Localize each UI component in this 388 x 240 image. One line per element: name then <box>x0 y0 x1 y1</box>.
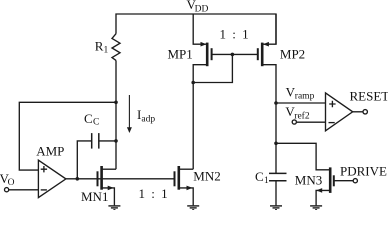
svg-text:MN2: MN2 <box>193 168 220 183</box>
svg-text:MP1: MP1 <box>168 46 193 61</box>
svg-text:AMP: AMP <box>36 144 64 159</box>
node Vramp junction <box>274 101 278 105</box>
label Vramp <box>286 84 315 101</box>
transistor MN2 <box>175 166 194 205</box>
svg-text:ref2: ref2 <box>294 110 310 121</box>
ground MN3 <box>310 206 322 210</box>
svg-text:ramp: ramp <box>295 91 315 101</box>
svg-text:R: R <box>95 38 104 53</box>
terminal VO <box>5 188 39 192</box>
ground MN2 <box>187 206 199 210</box>
junction CC node <box>114 139 118 143</box>
wire C1 to ground <box>275 181 277 206</box>
label R1 <box>95 38 109 55</box>
wire MP2 drain down segment <box>275 103 277 143</box>
op-amp U1 AMP <box>38 160 66 197</box>
transistor MN3 <box>316 167 334 205</box>
label C1 <box>255 169 269 186</box>
svg-text:MN3: MN3 <box>295 172 322 187</box>
terminal Vref2 <box>292 120 325 124</box>
wire node to MN3 drain <box>276 143 330 170</box>
capacitor C1 <box>269 173 287 180</box>
svg-text:RESET: RESET <box>350 88 388 103</box>
svg-text:C: C <box>93 117 99 127</box>
svg-text:1: 1 <box>264 176 269 186</box>
wire feedback to AMP + input <box>19 102 116 170</box>
svg-text:MP2: MP2 <box>280 46 305 61</box>
wire R1 bottom lead <box>115 60 117 103</box>
wire VDD rail <box>116 14 276 44</box>
junction MP1 drain node <box>191 81 195 85</box>
svg-text:PDRIVE: PDRIVE <box>340 163 387 178</box>
svg-text:C: C <box>84 111 93 126</box>
wire AMP output to MN1/MN2 gates <box>66 178 175 180</box>
label CC <box>84 111 99 128</box>
current arrow Iadp <box>127 95 132 133</box>
terminal PDRIVE <box>334 179 358 183</box>
svg-text:C: C <box>255 169 264 184</box>
svg-text:adp: adp <box>141 115 155 125</box>
wire CC left branch <box>77 141 91 179</box>
label Iadp <box>137 107 155 124</box>
svg-text:1 : 1: 1 : 1 <box>139 186 170 201</box>
junction AMP output node <box>76 177 80 181</box>
ground MN1 <box>108 206 120 210</box>
wire down to C1 <box>275 143 277 173</box>
label VO <box>0 171 15 188</box>
wire MN2 drain to MP1 drain <box>192 83 194 170</box>
wire CC right branch <box>100 140 117 142</box>
net VDD label <box>187 0 209 14</box>
svg-text:1: 1 <box>104 46 109 56</box>
wire Vramp to comparator <box>276 102 326 104</box>
label Vref2 <box>285 104 309 121</box>
wire mirror gate line <box>212 53 258 55</box>
transistor MP1 <box>193 14 211 83</box>
svg-text:DD: DD <box>195 4 209 14</box>
ground C1 <box>270 206 282 210</box>
junction C1/MN3 node <box>274 142 278 146</box>
node R1 bottom junction <box>114 101 118 105</box>
comparator U2 <box>326 93 368 131</box>
transistor MP2 <box>258 14 276 103</box>
svg-text:O: O <box>8 178 15 188</box>
resistor R1 <box>112 34 120 61</box>
junction mirror gate node <box>231 53 235 57</box>
capacitor CC <box>92 133 99 149</box>
svg-text:MN1: MN1 <box>81 189 108 204</box>
transistor MN1 <box>98 166 117 205</box>
wire node A down to MN1 drain <box>115 102 117 169</box>
wire diode connection MP1 <box>193 54 232 82</box>
svg-text:1 : 1: 1 : 1 <box>220 27 251 42</box>
